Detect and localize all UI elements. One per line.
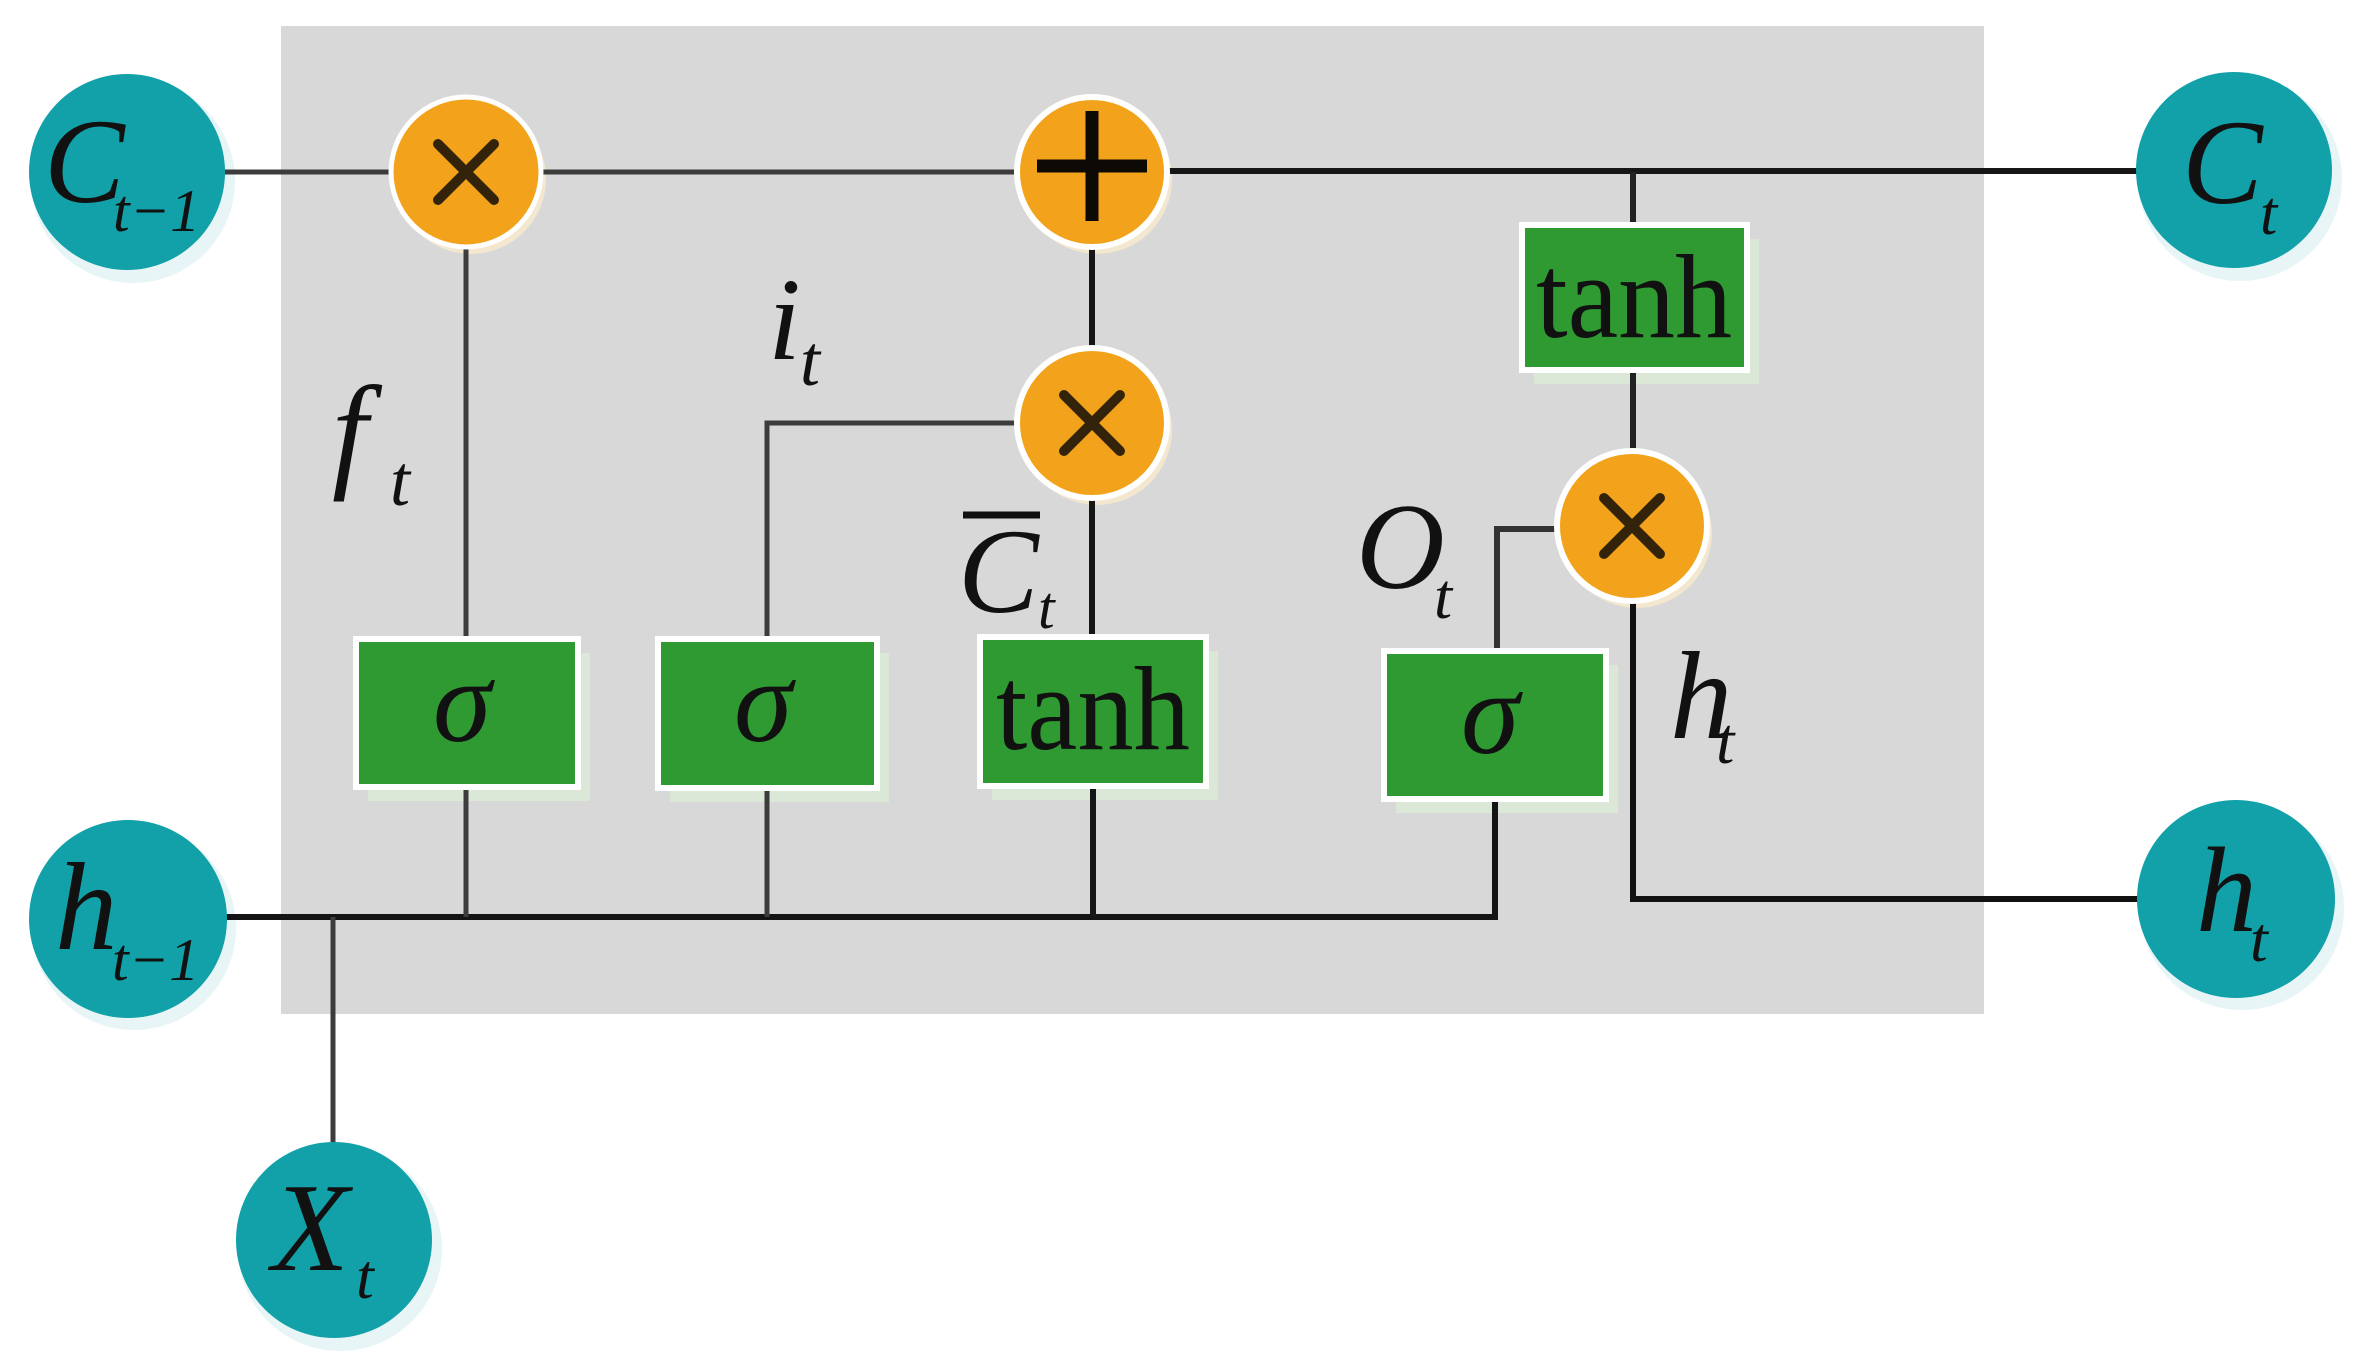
node C_t (teal output circle) xyxy=(2136,72,2332,268)
op M1: multiply circle on cell line xyxy=(391,97,541,247)
gate G1: sigma (forget gate) xyxy=(356,636,578,787)
op ADD: plus circle on cell line xyxy=(1017,97,1167,247)
wire: G1 bottom to h line xyxy=(464,787,469,917)
svg-text:σ: σ xyxy=(1461,648,1523,779)
op shadow M2 xyxy=(1022,355,1172,505)
label O_t xyxy=(1356,478,1454,633)
wire: plus down to M2 xyxy=(1089,172,1095,423)
node halo C_t xyxy=(2138,77,2342,281)
gate G4: sigma (output gate) xyxy=(1384,648,1606,799)
svg-text:t−1: t−1 xyxy=(113,178,200,244)
label h_t (inner) xyxy=(1670,628,1736,778)
svg-text:h: h xyxy=(2196,823,2257,958)
gate G5: tanh (on cell output) xyxy=(1522,225,1747,370)
wire: M3 down then right to h_t (output line) xyxy=(1633,600,2236,899)
svg-text:h: h xyxy=(55,839,118,977)
node h_{t-1} (teal input circle) xyxy=(29,820,227,1018)
wire: i_t elbow from sigma G2 up and right into M2 xyxy=(767,423,1020,645)
svg-text:t−1: t−1 xyxy=(112,927,199,993)
svg-text:O: O xyxy=(1356,478,1445,615)
wire: G2 bottom to h line xyxy=(765,788,770,917)
node halo h_{t-1} xyxy=(32,826,236,1030)
gate shadow G3 xyxy=(992,651,1218,800)
gate shadow G4 xyxy=(1396,665,1618,813)
node X_t (teal input circle) xyxy=(236,1142,432,1338)
op shadow M1 xyxy=(396,104,546,254)
gate shadow G2 xyxy=(670,653,889,802)
wire: M2 down to tanh gate G3 xyxy=(1089,423,1095,645)
wire: G3 bottom to h line xyxy=(1090,786,1096,917)
node halo C_{t-1} xyxy=(31,79,235,283)
svg-text:σ: σ xyxy=(734,636,796,767)
svg-text:tanh: tanh xyxy=(996,642,1190,775)
gate shadow G5 xyxy=(1534,239,1759,384)
wire: junction on cell line down into top tanh box G5 xyxy=(1630,172,1636,230)
op M3: multiply circle (O_t x tanh(C_t)) xyxy=(1557,451,1707,601)
svg-text:t: t xyxy=(390,441,412,521)
node halo X_t xyxy=(238,1147,442,1351)
op shadow ADD xyxy=(1022,104,1172,254)
LSTM cell body (gray background rect) xyxy=(281,26,1984,1014)
svg-text:tanh: tanh xyxy=(1536,230,1732,363)
gate G3: tanh (candidate) xyxy=(980,637,1206,786)
svg-text:t: t xyxy=(2260,180,2279,248)
node C_{t-1} (teal input circle) xyxy=(29,74,225,270)
wire: top tanh box G5 down to M3 xyxy=(1630,368,1636,455)
svg-text:t: t xyxy=(2250,904,2270,975)
gate shadow G1 xyxy=(368,653,590,801)
op M2: multiply circle (i_t x C~_t) xyxy=(1017,348,1167,498)
svg-text:t: t xyxy=(1038,575,1056,641)
svg-text:C: C xyxy=(958,505,1040,639)
node halo h_t xyxy=(2140,806,2344,1010)
svg-text:t: t xyxy=(1434,561,1454,633)
label i_t xyxy=(768,254,822,401)
label C~_t (candidate) with overbar xyxy=(958,505,1056,641)
node h_t (teal output circle) xyxy=(2137,800,2335,998)
gate G2: sigma (input gate) xyxy=(658,636,877,788)
wire: C_{t-1} to multiply M1 and on to plus (cell state line, gray) xyxy=(127,170,1092,175)
label f_t xyxy=(332,360,412,521)
wire: h_{t-1} line across to output gate G4 bottom xyxy=(128,801,1495,917)
op shadow M3 xyxy=(1562,458,1712,608)
wire: M1 down to sigma gate G1 (f_t) xyxy=(464,172,469,645)
svg-text:t: t xyxy=(800,321,822,401)
svg-text:C: C xyxy=(2182,96,2264,230)
svg-text:σ: σ xyxy=(433,636,495,767)
wire: plus to C_t (cell state line, black) xyxy=(1092,168,2234,174)
svg-text:i: i xyxy=(768,254,801,385)
svg-text:t: t xyxy=(356,1241,376,1312)
svg-text:t: t xyxy=(1716,705,1736,778)
wire: O_t elbow from sigma G4 up and right into M3 xyxy=(1497,529,1561,653)
svg-text:X: X xyxy=(267,1159,354,1298)
wire: branch down to X_t xyxy=(331,917,336,1150)
